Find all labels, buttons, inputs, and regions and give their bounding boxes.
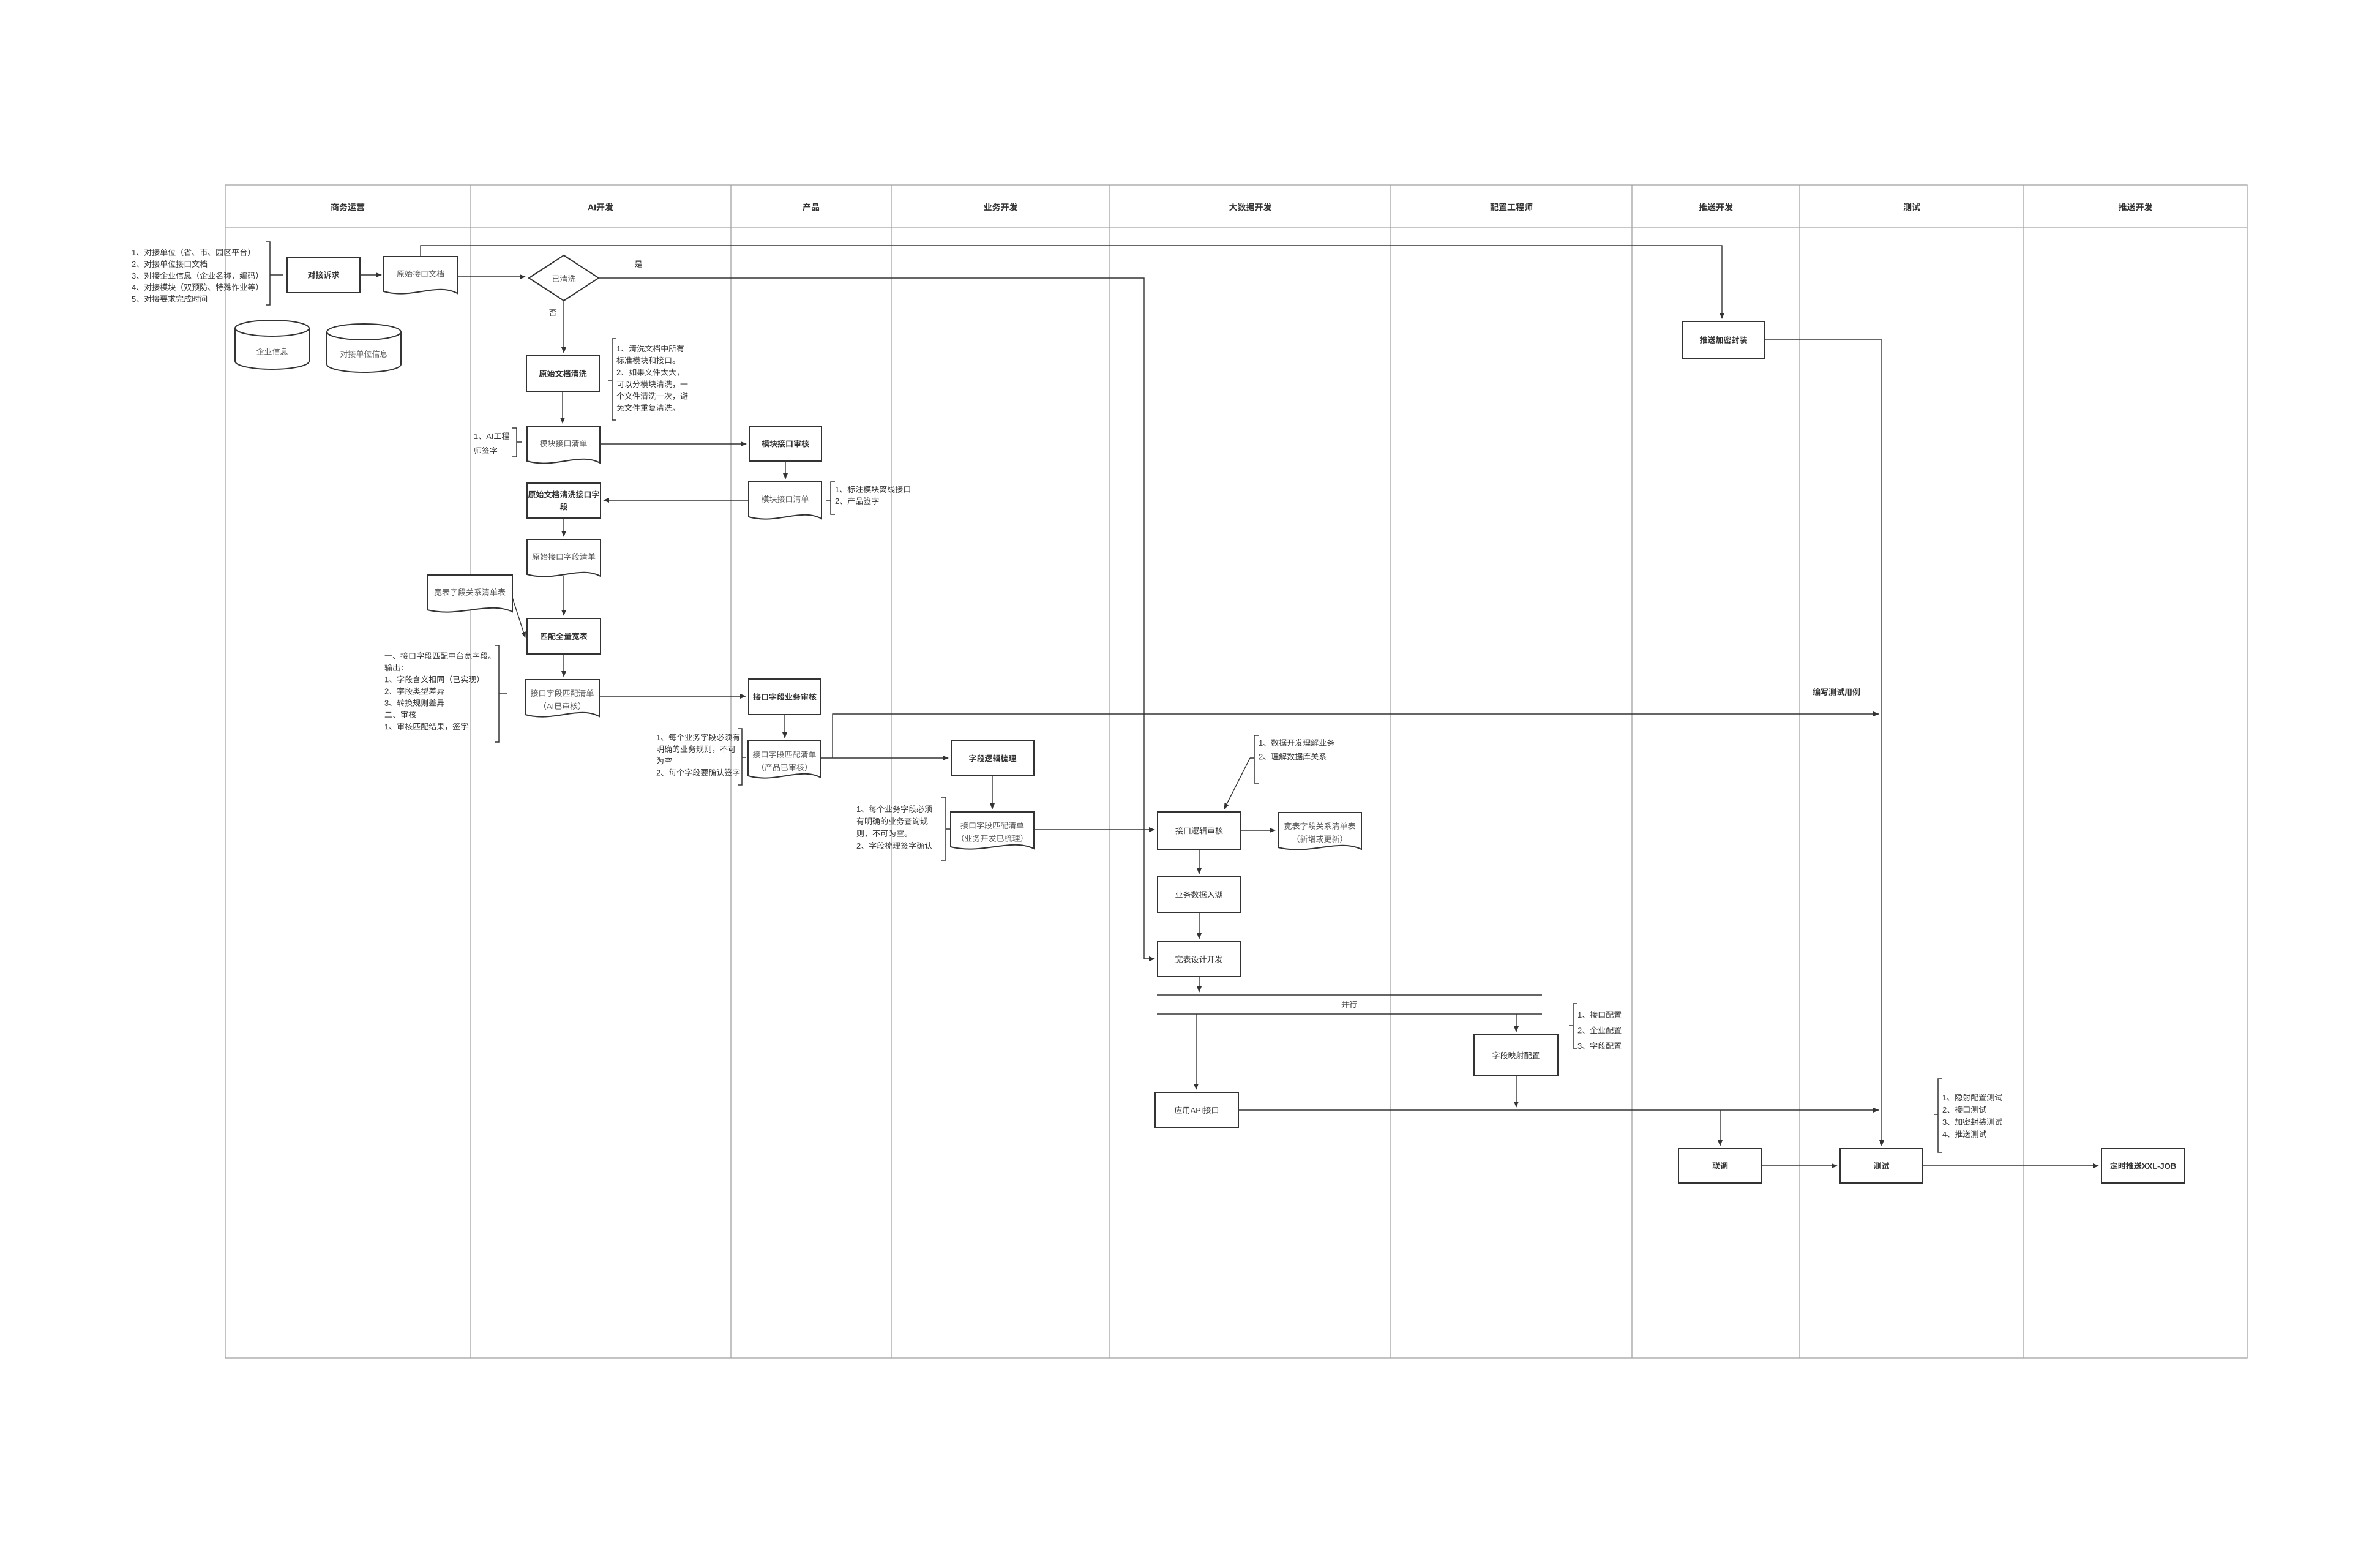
note 测试项 <box>1942 1094 2002 1138</box>
process 联调 <box>1678 1149 1762 1183</box>
wire 原始接口文档→已清洗 <box>457 276 525 277</box>
wire 原始文档清洗→模块接口清单 <box>562 391 563 423</box>
bracket 业务字段规则 <box>738 729 746 785</box>
label 是 <box>635 261 642 268</box>
wire 接口字段匹配清单AI→接口字段业务审核 <box>599 696 746 697</box>
label 并行 <box>1342 1001 1357 1008</box>
document 原始接口文档 <box>384 257 457 294</box>
process 测试 <box>1840 1149 1923 1183</box>
wire 编写测试用例 branch <box>833 714 1879 758</box>
wire 并行bar→字段映射配置 <box>1516 1014 1517 1032</box>
wire 模块接口审核→模块接口清单(产品) <box>785 461 786 479</box>
note 业务查询规则 <box>857 805 932 849</box>
wire 已清洗 否分支→原始文档清洗 <box>563 301 564 353</box>
wire 字段映射配置→应用API接口wire <box>1516 1076 1517 1107</box>
wire 应用API接口wire→联调 <box>1720 1110 1721 1146</box>
process 字段逻辑梳理 <box>951 741 1034 776</box>
decision 已清洗 <box>529 255 599 301</box>
process 推送加密封装 <box>1682 321 1765 358</box>
note 清洗说明 <box>616 345 687 411</box>
process 应用API接口 <box>1155 1092 1238 1128</box>
bracket 标注模块离线接口 <box>826 482 835 514</box>
note 对接单位清单 <box>132 249 258 302</box>
process 原始文档清洗接口字段 <box>527 483 601 518</box>
wire 业务数据入湖→宽表设计开发 <box>1199 912 1200 939</box>
document 模块接口清单 产品 <box>749 482 821 519</box>
wire 原始接口文档→推送加密封装 top route <box>421 246 1722 318</box>
bracket 接口字段匹配输出 <box>495 645 507 742</box>
wire 并行bar→应用API接口 <box>1196 1014 1197 1089</box>
bracket 对接单位清单 <box>266 242 283 305</box>
process 接口逻辑审核 <box>1158 812 1241 849</box>
wire 注释→接口逻辑审核 diagonal <box>1224 758 1250 809</box>
document 接口字段匹配清单 产品已审核 <box>748 741 821 778</box>
bracket 业务查询规则 <box>941 797 950 860</box>
note 业务字段规则 <box>657 734 740 776</box>
wire 接口逻辑审核→宽表字段关系清单表新增 <box>1241 830 1275 831</box>
wire 宽表字段关系清单表→匹配全量宽表 diagonal <box>512 598 525 637</box>
wire 测试→定时推送XXL-JOB <box>1923 1165 2098 1166</box>
process 宽表设计开发 <box>1158 942 1240 977</box>
document 宽表字段关系清单表 <box>427 575 512 612</box>
document 模块接口清单 AI <box>527 426 600 464</box>
datastore 对接单位信息 <box>327 324 401 372</box>
note 数据开发理解 <box>1259 739 1334 760</box>
process 业务数据入湖 <box>1158 877 1240 912</box>
wire 推送加密封装→测试 long vertical <box>1765 340 1882 1146</box>
wire 原始文档清洗接口字段→原始接口字段清单 <box>563 518 564 536</box>
process 模块接口审核 <box>749 426 821 461</box>
swimlane frame <box>225 185 2247 1358</box>
note 标注模块离线接口 <box>836 486 910 505</box>
wire 已清洗 是分支→宽表设计开发 <box>599 278 1154 959</box>
wire 字段逻辑梳理→接口字段匹配清单业务开发 <box>992 776 993 809</box>
note 配置项 <box>1577 1011 1621 1049</box>
process 接口字段业务审核 <box>749 679 821 715</box>
lane headers <box>331 203 2152 211</box>
bracket AI工程师签字 <box>512 428 522 457</box>
process 字段映射配置 <box>1474 1035 1558 1076</box>
wire 接口字段匹配清单产品→字段逻辑梳理 <box>821 757 948 759</box>
wire 匹配全量宽表→接口字段匹配清单AI <box>563 654 564 677</box>
wire 联调→测试 <box>1762 1165 1837 1166</box>
wire 接口字段业务审核→接口字段匹配清单产品 <box>784 715 785 738</box>
document 宽表字段关系清单表 新增或更新 <box>1278 813 1361 850</box>
note 接口字段匹配输出 <box>384 652 490 730</box>
parallel bar top <box>1157 994 1542 996</box>
wire 接口逻辑审核→业务数据入湖 <box>1199 849 1200 874</box>
document 接口字段匹配清单 AI已审核 <box>525 680 599 717</box>
bracket 配置项 <box>1569 1004 1577 1048</box>
bracket 清洗说明 <box>608 339 616 420</box>
wire 应用API接口→测试 horizontal <box>1238 1109 1879 1111</box>
document 原始接口字段清单 <box>527 539 601 577</box>
parallel bar bottom <box>1157 1013 1542 1015</box>
process 定时推送XXL-JOB <box>2101 1149 2185 1183</box>
process 对接诉求 <box>287 257 360 293</box>
bracket 数据开发理解 <box>1250 735 1259 783</box>
note AI工程师签字 <box>474 432 509 454</box>
wire 模块接口清单→模块接口审核 <box>600 443 746 445</box>
label 编写测试用例 <box>1813 688 1860 696</box>
process 原始文档清洗 <box>526 356 599 391</box>
document 接口字段匹配清单 业务开发已梳理 <box>951 812 1034 849</box>
process 匹配全量宽表 <box>527 618 601 654</box>
wire 模块接口清单(产品)→原始文档清洗接口字段 <box>604 500 749 501</box>
wire 对接诉求→原始接口文档 <box>360 274 381 276</box>
label 否 <box>549 309 556 316</box>
wire 原始接口字段清单→匹配全量宽表 <box>563 576 564 615</box>
bracket 测试项 <box>1934 1079 1942 1152</box>
wire 接口字段匹配清单业务开发→接口逻辑审核 <box>1034 829 1154 830</box>
datastore 企业信息 <box>235 320 309 369</box>
wire 宽表设计开发→并行bar <box>1199 977 1200 992</box>
